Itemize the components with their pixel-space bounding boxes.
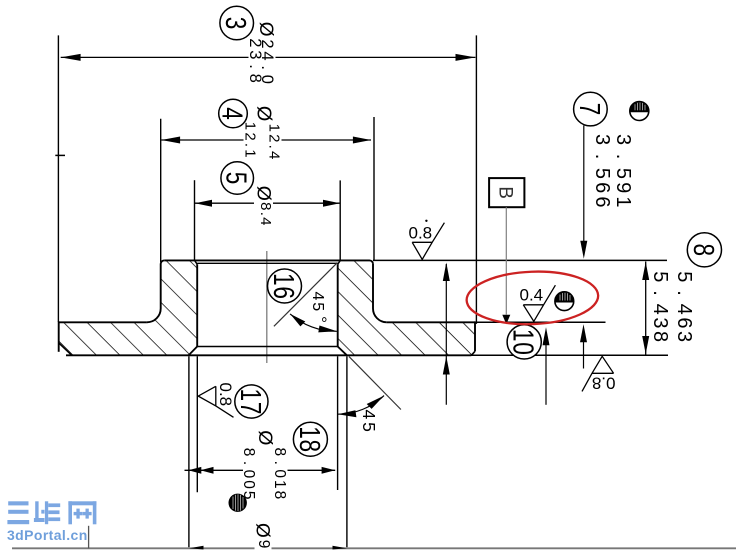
surface finish 0.4 mid: [520, 285, 556, 321]
balloon 4: [219, 99, 248, 128]
svg-text:0.8: 0.8: [409, 224, 433, 243]
svg-text:23.8: 23.8: [246, 38, 264, 85]
balloon 16: [268, 269, 302, 303]
part outline right: [373, 309, 387, 323]
dim3 text Ø24.0 / 23.8: [246, 20, 276, 86]
svg-text:8.005: 8.005: [240, 448, 257, 502]
svg-text:8: 8: [687, 244, 720, 257]
svg-text:0.4: 0.4: [520, 286, 544, 305]
balloon 3: [220, 6, 254, 40]
filled circle symbol near balloon 7: [630, 102, 649, 121]
filled circle symbol near 0.4: [555, 292, 574, 311]
extension line dim3 left: [57, 35, 59, 322]
dim8 text 5.463 / 5.438: [649, 271, 695, 344]
red ellipse: [466, 269, 600, 326]
svg-text:45: 45: [359, 410, 379, 435]
extension line dim3 right: [475, 35, 477, 324]
part outline left: [147, 260, 164, 322]
datum B: [489, 178, 524, 207]
dim 4 line + arrows: [161, 139, 371, 141]
extension line flange-bottom right: [471, 354, 668, 356]
svg-text:0.8: 0.8: [216, 383, 235, 407]
svg-text:16: 16: [267, 273, 300, 300]
filled dot bottom: [229, 494, 247, 512]
tick on left extension line: [55, 154, 65, 156]
dim 3 line + arrows: [61, 56, 476, 58]
dim18 text Ø8.018 / 8.005: [240, 429, 288, 502]
网: [68, 501, 96, 524]
dim 18 line + arrows: [185, 469, 336, 471]
svg-text:18: 18: [293, 426, 326, 453]
balloon 18: [293, 422, 327, 456]
x546 arrow + stem: [543, 327, 550, 345]
bottom face: [66, 354, 471, 356]
svg-text:3.566: 3.566: [591, 134, 613, 211]
45deg diagonal top + angular arc: [274, 263, 338, 327]
extension line dim18 inner right: [337, 356, 339, 490]
dim 5 line + arrows: [195, 202, 340, 204]
svg-text:5.438: 5.438: [649, 271, 671, 344]
dim 7 lower up-arrow + stem: [580, 324, 587, 342]
centerline: [266, 251, 268, 363]
x446 stacked arrows: [445, 264, 447, 405]
svg-text:12.1: 12.1: [242, 122, 259, 160]
svg-text:3.591: 3.591: [612, 134, 634, 211]
balloon 5: [221, 162, 254, 195]
balloon 8: [687, 233, 721, 267]
三: [7, 501, 29, 524]
bottom border line: [12, 547, 736, 549]
extension line flange-top right: [475, 321, 606, 323]
extension line dim5 right: [339, 180, 341, 259]
dim 7 leader + down arrow: [583, 126, 585, 253]
svg-text:45°: 45°: [309, 292, 330, 325]
bore far-side edges: [197, 262, 338, 264]
45deg diagonal bottom + angular arc: [349, 356, 401, 409]
svg-text:3: 3: [220, 17, 253, 30]
dim4 text Ø12.4 / 12.1: [242, 104, 283, 161]
svg-text:17: 17: [234, 389, 267, 416]
extension line hub-top right: [373, 259, 667, 261]
dim7 text 3.591 / 3.566: [591, 134, 634, 211]
extension line dia9 outer right: [346, 356, 348, 547]
45 bottom text: [359, 410, 379, 435]
balloon 7: [574, 92, 608, 126]
section body right (hatched): [338, 260, 475, 355]
svg-text:0.8: 0.8: [592, 373, 616, 392]
surface finish 0.8 left (rotated 90, pointing left): [198, 383, 235, 418]
extension line dim18 inner left: [196, 356, 198, 492]
45deg top text: [309, 292, 330, 325]
dim 8 vertical line + arrows: [645, 262, 647, 355]
dia9 text: [252, 522, 273, 551]
svg-text:10: 10: [507, 329, 540, 356]
extension line dim5 left: [194, 180, 196, 259]
extension line dim4 left: [160, 119, 162, 262]
extension line dia9 outer left: [188, 356, 190, 547]
dim5 text Ø8.4: [253, 184, 275, 226]
svg-text:7: 7: [573, 103, 606, 116]
维: [34, 501, 60, 524]
svg-text:B: B: [495, 186, 516, 199]
section body left (hatched): [59, 260, 198, 355]
balloon 10: [507, 325, 541, 359]
balloon 17: [235, 385, 268, 418]
surface finish 0.8 top: [409, 220, 445, 260]
svg-text:5.463: 5.463: [673, 271, 695, 344]
dia9 bottom arrows: [189, 546, 203, 550]
svg-text:3dPortal.cn: 3dPortal.cn: [7, 527, 88, 543]
surface finish 0.8 bottom (rotated 180): [582, 356, 616, 392]
svg-text:4: 4: [216, 107, 249, 120]
svg-text:5: 5: [220, 172, 253, 185]
extension line dim4 right: [373, 117, 375, 260]
